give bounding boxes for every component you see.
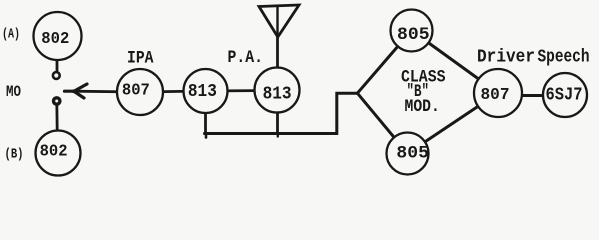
wire first 813 to second 813 (206, 89, 278, 92)
tube V5 813 PA (255, 68, 300, 113)
tube V1 802 (A) (34, 12, 82, 60)
tube V9 speech 6SJ7 (543, 73, 587, 117)
svg-text:MO: MO (6, 83, 21, 101)
wire B-802 stem from terminal (55, 101, 59, 153)
wire IPA 807 to first 813 (140, 91, 206, 92)
svg-text:Speech: Speech (538, 48, 590, 68)
svg-text:(B): (B) (5, 146, 24, 162)
tube V6 805 top (391, 10, 433, 52)
svg-text:MOD.: MOD. (405, 97, 440, 117)
svg-text:805: 805 (396, 143, 429, 163)
terminal dot upper (53, 72, 60, 79)
wire 813 no.2 stem down (276, 90, 279, 134)
joint stub under 813 no.2 stem (277, 134, 279, 137)
tube V4 813 (184, 69, 228, 113)
wire driver 807 to 6SJ7 (498, 94, 565, 97)
tube V8 driver 807 (474, 69, 522, 117)
tube V2 802 (B) (36, 131, 81, 176)
antenna (259, 5, 299, 37)
wire diamond lower-right (408, 93, 499, 154)
wire A-802 stem to terminal (56, 36, 59, 72)
svg-text:IPA: IPA (127, 48, 154, 68)
wire MO arrow line to IPA 807 (74, 90, 140, 94)
svg-text:(A): (A) (2, 27, 20, 43)
wire 813 no.1 stem down (204, 91, 207, 134)
svg-text:805: 805 (397, 25, 430, 45)
wire bottom bus (205, 93, 358, 133)
wire diamond upper-left (357, 31, 411, 94)
svg-text:Driver: Driver (477, 48, 535, 68)
svg-text:P.A.: P.A. (228, 48, 264, 68)
wire diamond lower-left (357, 93, 407, 153)
antenna feed wire (276, 6, 279, 90)
svg-text:807: 807 (122, 80, 150, 99)
svg-text:813: 813 (263, 84, 292, 104)
svg-text:813: 813 (188, 82, 217, 102)
svg-text:802: 802 (40, 141, 68, 160)
wire diamond upper-right (412, 31, 499, 94)
terminal dot lower (54, 98, 60, 104)
svg-text:807: 807 (481, 86, 510, 105)
tube V3 IPA 807 (117, 69, 163, 115)
arrowhead (65, 84, 88, 98)
tube V7 805 bottom (387, 133, 429, 175)
svg-text:802: 802 (41, 29, 69, 48)
svg-text:6SJ7: 6SJ7 (546, 86, 583, 106)
joint stub left bus end (205, 134, 208, 138)
